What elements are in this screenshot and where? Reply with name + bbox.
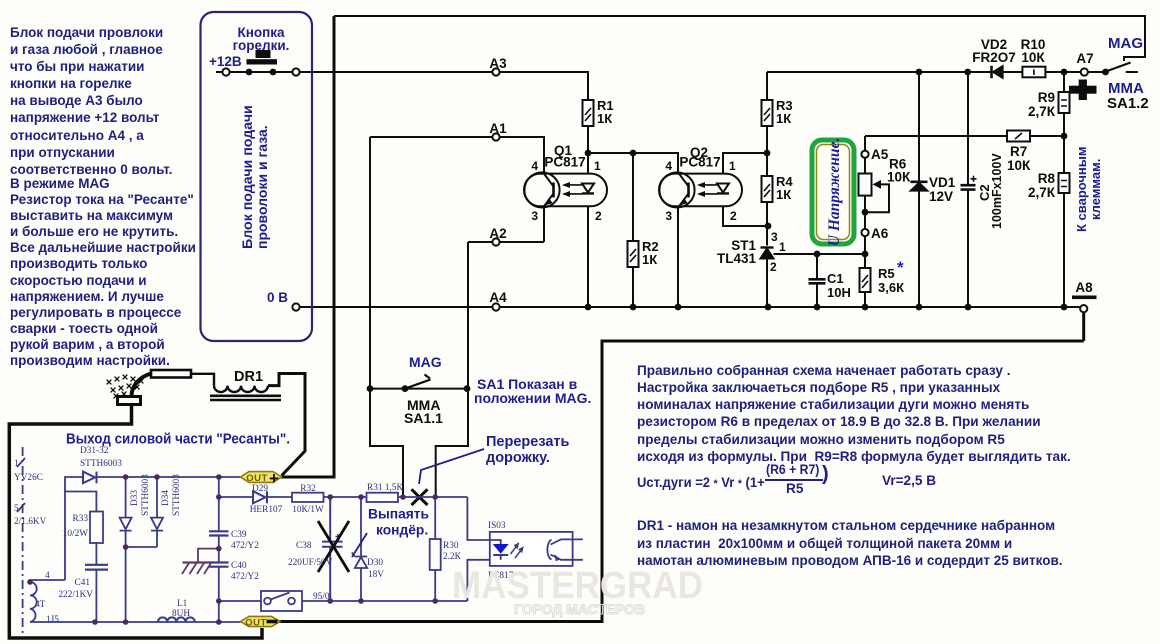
resistor R4 body: [762, 176, 773, 202]
wire : Q2 pin3 to A4 bus: [677, 206, 679, 307]
svg-text:Выпаять: Выпаять: [368, 507, 429, 522]
svg-text:10К: 10К: [1021, 50, 1045, 65]
resistor R9 body: [1059, 92, 1070, 113]
svg-text:2.2К: 2.2К: [443, 552, 462, 562]
svg-text:10Н: 10Н: [827, 285, 851, 300]
wire : OUT- return loop A8 to OUT- badge: [279, 341, 1084, 622]
wire : R32 to C38/D30 nodes to R31: [324, 496, 367, 498]
перерезать arrow: [419, 449, 484, 484]
svg-text:клеммам.: клеммам.: [1088, 159, 1103, 220]
svg-text:1: 1: [779, 240, 786, 254]
svg-text:1К: 1К: [597, 111, 612, 126]
svg-text:А3: А3: [489, 56, 507, 71]
svg-text:2,7К: 2,7К: [1028, 185, 1056, 200]
svg-text:1Ј5: 1Ј5: [46, 615, 59, 625]
wire : +12V button rail to A3 to R1: [216, 72, 588, 100]
wire : R6 wiper to A6 line: [865, 184, 889, 212]
wire : R30 to bus: [434, 570, 436, 601]
wire : TL431 anode to A4 bus: [766, 258, 768, 307]
svg-text:D34: D34: [161, 490, 171, 506]
formula Uст.дуги: [637, 474, 765, 493]
open circle terminals A-pins: [222, 68, 1088, 312]
wire : R31 to X cut to node: [398, 496, 467, 498]
svg-text:Перерезать: Перерезать: [486, 434, 570, 450]
wire : IS03 LED cathode return to switch bus: [467, 560, 500, 601]
wire : VD2 to R10: [1002, 71, 1023, 73]
svg-text:+12В: +12В: [209, 54, 242, 69]
push button Кнопка горелки: [247, 50, 278, 65]
potentiometer R6 wiper arrow: [873, 180, 882, 189]
wire : C2 leads: [967, 72, 969, 307]
svg-text:95/0: 95/0: [313, 592, 330, 602]
svg-text:2: 2: [595, 209, 602, 223]
capacitor C40 472/Y2: [209, 563, 229, 567]
welding torch: [118, 370, 215, 405]
svg-text:C38: C38: [296, 541, 312, 551]
svg-text:D30: D30: [367, 558, 383, 568]
svg-text:R33: R33: [73, 514, 89, 524]
svg-text:3,6К: 3,6К: [878, 280, 904, 295]
svg-text:STTH6003: STTH6003: [172, 474, 182, 516]
svg-text:5: 5: [14, 504, 19, 514]
diode VD2 FR207: [992, 66, 1003, 78]
resistor R32 10K/1W body: [292, 493, 324, 502]
inductor L1 8UH: [158, 617, 195, 622]
resistor R7 body: [1007, 131, 1030, 142]
wire : winding top to riser: [30, 580, 65, 582]
primary terminal tick 1 YV26C: [17, 458, 25, 467]
svg-text:1: 1: [729, 159, 736, 173]
resistor R33 10/2W body: [90, 512, 103, 544]
diode D31-32 STTH6003: [83, 472, 97, 484]
wire : R8 leads: [1063, 136, 1065, 307]
wire : switch row bus: [219, 600, 468, 602]
plus terminal symbol (welding +): [1069, 80, 1097, 101]
wire : D33/D34 cathodes join, to bus: [126, 547, 157, 622]
svg-text:дорожку.: дорожку.: [486, 450, 550, 466]
выпаять arrow: [352, 533, 367, 557]
svg-text:VD1: VD1: [929, 175, 956, 190]
wire : A5 column leads: [864, 136, 866, 174]
wire : SA1.1 right loop down to cut node: [436, 389, 468, 497]
wire : OUT- badge to torch ground return: [9, 405, 262, 638]
wire : R5 leads: [864, 254, 866, 307]
optocoupler Q1 PC817 body: [524, 172, 607, 207]
wire : R2 bottom lead to A4 bus: [632, 267, 634, 307]
feed block rounded rectangle: [201, 12, 313, 341]
svg-text:HER107: HER107: [250, 505, 283, 515]
svg-text:R7: R7: [1010, 144, 1027, 159]
wire : A4 ground bus: [296, 306, 1080, 308]
svg-text:R32: R32: [300, 484, 316, 494]
TL431 ST1 symbol: [761, 248, 777, 259]
wire : C1 leads: [816, 254, 818, 307]
wire : A2 drop to SA1.1: [467, 242, 469, 389]
wire : C39 riser tap to D29: [219, 496, 253, 498]
resistor R1 body: [583, 100, 594, 126]
svg-text:4: 4: [45, 571, 50, 581]
svg-text:C41: C41: [75, 578, 91, 588]
svg-text:А1: А1: [489, 121, 507, 136]
wire : R2 top lead: [632, 153, 634, 241]
svg-text:проволоки и газа.: проволоки и газа.: [254, 125, 270, 249]
svg-text:1К: 1К: [776, 187, 791, 202]
svg-text:OUT: OUT: [246, 473, 268, 484]
svg-text:220UF/50V: 220UF/50V: [288, 558, 333, 568]
svg-text:R5: R5: [878, 266, 895, 281]
wire : SA1.1 bar: [370, 388, 468, 390]
wire : R6 bottom to A6 to ref node: [864, 196, 866, 254]
svg-text:2: 2: [730, 209, 737, 223]
wire : OUT+ riser x=334: [333, 16, 336, 476]
resistor R5 body: [860, 268, 871, 292]
svg-text:FR2O7: FR2O7: [972, 50, 1016, 65]
capacitor C38 220UF/50V (to remove): [322, 497, 343, 601]
svg-text:STTH6003: STTH6003: [80, 459, 122, 469]
green label box U Напряжение: [812, 138, 854, 246]
svg-text:C39: C39: [231, 530, 247, 540]
wire : C40 to switch wire and bus: [218, 567, 220, 622]
svg-text:OUT: OUT: [245, 617, 267, 628]
svg-text:MAG: MAG: [1108, 35, 1143, 52]
plus mark C38: [336, 534, 341, 539]
svg-text:PC817: PC817: [679, 155, 720, 170]
wire : riser x=65 to D31 anode: [65, 477, 83, 580]
svg-text:положении MAG.: положении MAG.: [474, 390, 591, 406]
svg-text:R30: R30: [443, 541, 459, 551]
wire : R10 to A7 to SA1.2 pivot: [1045, 71, 1105, 73]
switch SA1.1 lever: [405, 375, 431, 389]
wire : DR1 to OUT+ badge (black): [268, 374, 305, 476]
svg-text:10/2W: 10/2W: [63, 529, 89, 539]
wire : cut node down to IS03 LED: [467, 497, 500, 540]
annotation paragraph left MAG mode: [10, 176, 196, 369]
dash-dot boundary of Resanta block: [22, 447, 24, 633]
svg-text:горелки.: горелки.: [233, 38, 290, 53]
wire : D31 cathode to OUT+ rail: [97, 476, 242, 478]
wire : A1 drop to SA1.1: [369, 137, 371, 389]
svg-text:3: 3: [665, 209, 672, 223]
svg-text:R31 1,5К: R31 1,5К: [367, 483, 403, 493]
wire : D29 to R32: [267, 496, 292, 498]
svg-text:1К: 1К: [776, 111, 791, 126]
svg-text:MAG: MAG: [409, 354, 442, 370]
svg-text:8UH: 8UH: [172, 609, 190, 619]
svg-text:C1: C1: [827, 271, 844, 286]
svg-text:3: 3: [531, 209, 538, 223]
diode D34 STTH6003: [151, 477, 163, 547]
svg-text:C40: C40: [231, 561, 247, 571]
resistor R10 body: [1022, 67, 1045, 78]
OUT+ badge: [241, 469, 282, 488]
wire : R33 to C41: [95, 543, 97, 564]
capacitor C1 10H: [809, 279, 826, 283]
DR1 core bars: [210, 396, 281, 400]
svg-text:U Напряжение.: U Напряжение.: [826, 138, 843, 246]
potentiometer R6 body: [859, 174, 872, 196]
svg-text:0 В: 0 В: [267, 290, 288, 305]
svg-text:472/Y2: 472/Y2: [231, 541, 259, 551]
resistor R8 body: [1059, 173, 1070, 193]
wire : R4 bottom to TL431 cathode: [766, 202, 768, 246]
wire : SA1.2 MMA throw contact: [1126, 71, 1138, 73]
svg-text:PC817: PC817: [544, 155, 585, 170]
X removal mark over C38: [318, 521, 349, 572]
zener D30 18V: [352, 497, 367, 601]
svg-text:1: 1: [14, 459, 19, 469]
svg-text:R8: R8: [1038, 171, 1056, 186]
wire : Q2 pin1 up to R3/R4 node: [723, 153, 767, 174]
wire : right +weld rail R3 to VD2: [767, 72, 991, 100]
svg-text:472/Y2: 472/Y2: [231, 572, 259, 582]
wire : VD1 leads: [918, 72, 920, 307]
wire : Q1 pin2 to A4 bus: [587, 206, 589, 307]
wire : R7 to R9/R8 node: [1030, 135, 1064, 137]
svg-text:А4: А4: [489, 290, 507, 305]
wire : OUT+ rail to C39: [218, 477, 220, 531]
svg-text:YV26C: YV26C: [14, 473, 43, 483]
svg-text:D33: D33: [130, 490, 140, 506]
optocoupler Q2 PC817 body: [659, 172, 742, 207]
svg-text:4: 4: [665, 159, 672, 173]
annotation paragraph DR1: [637, 517, 1063, 570]
svg-text:1К: 1К: [642, 252, 657, 267]
svg-text:STTH6003: STTH6003: [141, 474, 151, 516]
resistor R31 1,5K body: [367, 493, 399, 502]
svg-text:10К: 10К: [887, 170, 911, 185]
svg-text:10К/1W: 10К/1W: [292, 505, 324, 515]
wire : node R1/Q1 to R2 to Q2 pin4: [588, 153, 678, 174]
svg-text:D31-32: D31-32: [80, 446, 109, 456]
optocoupler IS03 PC817 box: [490, 532, 583, 566]
svg-text:DR1: DR1: [234, 369, 263, 385]
svg-text:А7: А7: [1076, 51, 1093, 66]
svg-text:2/1.6KV: 2/1.6KV: [14, 517, 47, 527]
svg-text:222/1KV: 222/1KV: [58, 590, 93, 600]
wire : A2 rail to Q1 pin3: [468, 206, 544, 242]
wire : SA1.1 left loop down to R31 node: [370, 389, 403, 497]
diode D33 STTH6003: [120, 477, 132, 547]
svg-text:К сварочным: К сварочным: [1074, 146, 1089, 232]
resistor R30 2.2K body: [430, 539, 441, 570]
OUT- badge: [241, 616, 281, 628]
svg-text:4Т: 4Т: [35, 600, 46, 610]
capacitor C41 222/1KV: [85, 565, 108, 570]
relay contact box 95/0: [261, 591, 302, 611]
svg-text:R9: R9: [1038, 90, 1055, 105]
wire : R1 bottom to Q1 pin1: [587, 126, 589, 174]
svg-text:L1: L1: [177, 599, 188, 609]
svg-text:1: 1: [594, 159, 601, 173]
svg-text:А6: А6: [871, 226, 889, 241]
resistor R2 body: [628, 241, 639, 267]
svg-text:SA1.2: SA1.2: [1107, 95, 1149, 112]
inductor DR1 coil: [214, 386, 268, 392]
wire : C41 to bottom bus: [95, 570, 97, 622]
chassis ground: [182, 549, 219, 574]
svg-text:*: *: [897, 258, 904, 277]
wire : Q2 pin2 to R4 bottom node: [723, 206, 767, 226]
zener diode VD1 12V: [911, 182, 928, 191]
wire : OUT+ badge to riser x=334: [280, 476, 336, 479]
wire : branch to R33: [65, 492, 96, 512]
primary terminal tick 5 2/1.6KV: [17, 503, 25, 512]
capacitor C2 100mFx100V: [961, 176, 977, 190]
svg-text:2: 2: [770, 260, 777, 274]
switch SA1.2 lever: [1106, 63, 1131, 72]
svg-text:2,7К: 2,7К: [1028, 104, 1056, 119]
svg-text:+: +: [269, 469, 279, 488]
wire : bottom bus transformer to OUT- badge: [30, 621, 241, 623]
svg-text:А2: А2: [489, 226, 506, 241]
svg-text:18V: 18V: [368, 570, 384, 580]
svg-text:100mFx100V: 100mFx100V: [990, 153, 1004, 229]
annotation paragraph right setup: [637, 362, 1071, 466]
wire : A8 riser from bottom black loop: [1082, 313, 1085, 342]
wire : top loop OUT+ to SA1.2 MAG contact: [334, 16, 1145, 61]
svg-text:А5: А5: [871, 147, 889, 162]
svg-text:TL431: TL431: [717, 251, 757, 266]
annotation paragraph left top: [10, 24, 172, 178]
wire : C39 to C40: [218, 536, 220, 563]
wire : A5 rail to R7: [865, 135, 1007, 137]
power section junction dots: [27, 474, 438, 625]
svg-text:3: 3: [771, 230, 778, 244]
wire : TL431 ref to C1 to R5 node: [774, 253, 865, 255]
formula Vr value: [882, 473, 936, 490]
wire : R9 leads: [1063, 72, 1065, 136]
resistor R3 body: [762, 100, 773, 126]
wire : A1 rail to Q1 pin4: [370, 137, 544, 174]
wire : R3 bottom to R4 top: [766, 126, 768, 176]
transformer 4T winding: [30, 582, 37, 622]
svg-text:SA1.1: SA1.1: [404, 410, 443, 426]
svg-text:12V: 12V: [929, 189, 953, 204]
capacitor C39 472/Y2: [209, 531, 229, 535]
torch sparks: [107, 375, 144, 399]
svg-text:IS03: IS03: [488, 521, 506, 531]
svg-text:А8: А8: [1075, 280, 1093, 295]
svg-text:ГОРОД МАСТЕРОВ: ГОРОД МАСТЕРОВ: [514, 601, 645, 617]
svg-text:D29: D29: [252, 484, 268, 494]
svg-text:10К: 10К: [1007, 158, 1031, 173]
diode D29 HER107: [253, 491, 267, 503]
X cut mark (перерезать дорожку): [412, 489, 428, 505]
wire : node to R30: [434, 497, 436, 539]
svg-text:кондёр.: кондёр.: [376, 523, 428, 538]
svg-text:4: 4: [531, 159, 538, 173]
